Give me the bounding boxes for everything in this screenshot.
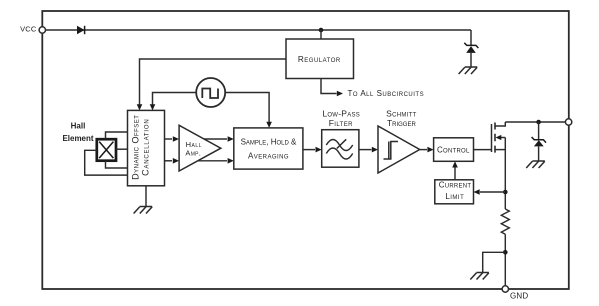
chip outline border bbox=[42, 11, 569, 289]
svg-text:Control: Control bbox=[437, 145, 470, 154]
wire source rail to current limit bbox=[474, 189, 506, 195]
wire hall top terminal bbox=[106, 132, 128, 139]
Hall element bbox=[97, 139, 116, 161]
ground below Z1 bbox=[459, 67, 478, 74]
wire hall right terminal bbox=[116, 148, 128, 150]
ground at bottom branch bbox=[470, 273, 489, 280]
svg-text:Cancellation: Cancellation bbox=[141, 119, 151, 176]
svg-text:Amp.: Amp. bbox=[185, 149, 201, 158]
low-pass filter box bbox=[322, 130, 359, 168]
wire low-pass filter to schmitt bbox=[359, 147, 378, 153]
wire control to gate bbox=[474, 149, 492, 151]
junction resistor leg to ground branch bbox=[503, 250, 508, 255]
resistor R1 bbox=[501, 209, 509, 234]
wire hall left loop terminal bbox=[85, 150, 128, 175]
wire to all subcircuits bbox=[321, 79, 424, 98]
node VCC pin bbox=[20, 25, 45, 34]
wire hall amp to sample bottom bbox=[198, 158, 234, 164]
svg-text:GND: GND bbox=[510, 292, 528, 301]
schmitt trigger label bbox=[386, 108, 416, 128]
schmitt trigger bbox=[378, 126, 420, 173]
op-amp hall amp bbox=[179, 125, 221, 171]
ground below DOC bbox=[134, 207, 153, 214]
wire current limit to control bbox=[452, 161, 458, 180]
diode D1 on VCC rail bbox=[77, 26, 85, 34]
ground below Z2 bbox=[526, 161, 545, 168]
svg-text:Schmitt: Schmitt bbox=[386, 108, 416, 118]
junction source rail to current limit bbox=[503, 190, 508, 195]
svg-text:Regulator: Regulator bbox=[298, 55, 341, 64]
svg-text:VCC: VCC bbox=[20, 25, 37, 34]
svg-text:Hall: Hall bbox=[71, 122, 86, 131]
svg-text:Dynamic Offset: Dynamic Offset bbox=[130, 115, 140, 180]
wire DOC to hall amp bottom bbox=[165, 158, 180, 164]
regulator box bbox=[286, 39, 354, 79]
svg-text:Current: Current bbox=[439, 181, 472, 190]
oscillator U2 bbox=[196, 78, 225, 107]
dynamic offset cancellation box bbox=[128, 110, 165, 185]
wire regulator to dynamic offset cancellation bbox=[137, 59, 286, 110]
wire oscillator to DOC bbox=[150, 93, 197, 111]
wire sample to low-pass filter bbox=[303, 147, 322, 153]
wire source rail down bbox=[504, 138, 506, 210]
sample hold averaging box bbox=[234, 128, 303, 169]
node GND pin bbox=[502, 286, 528, 301]
zener Z2 bbox=[532, 137, 546, 161]
wire hall bottom terminal bbox=[106, 161, 128, 168]
Hall element label bbox=[62, 122, 93, 144]
low-pass filter label bbox=[322, 108, 360, 128]
junction on VCC rail above regulator bbox=[319, 28, 324, 33]
svg-text:Trigger: Trigger bbox=[387, 118, 417, 128]
wire DOC ground lead bbox=[145, 186, 147, 207]
zener Z1 bbox=[464, 43, 478, 53]
wire hall amp to sample top bbox=[204, 136, 234, 142]
control box bbox=[434, 138, 474, 162]
wire to zener Z2 bbox=[538, 122, 540, 140]
svg-text:To All Subcircuits: To All Subcircuits bbox=[348, 89, 425, 98]
junction drain rail to Z2 bbox=[536, 120, 541, 125]
svg-text:Averaging: Averaging bbox=[248, 151, 289, 160]
wire schmitt to control bbox=[420, 147, 434, 153]
wire VCC rail bbox=[46, 29, 471, 31]
wire branch to ground bbox=[483, 252, 506, 272]
svg-text:Sample, Hold &: Sample, Hold & bbox=[241, 137, 297, 146]
wire oscillator to sample hold bbox=[225, 93, 272, 128]
node OUTPUT pin bbox=[565, 119, 571, 125]
svg-text:Filter: Filter bbox=[329, 118, 353, 128]
wire drain to output node bbox=[505, 121, 565, 123]
wire resistor to GND pin bbox=[504, 234, 506, 286]
svg-text:Limit: Limit bbox=[445, 192, 464, 201]
current limit box bbox=[435, 180, 474, 204]
wire VCC rail to zener Z1 bbox=[470, 30, 472, 67]
wire DOC to hall amp top bbox=[165, 136, 180, 142]
svg-text:Low-Pass: Low-Pass bbox=[322, 108, 360, 118]
svg-text:Element: Element bbox=[62, 134, 93, 143]
wire VCC to regulator bbox=[320, 30, 322, 39]
transistor Q1 output MOSFET bbox=[492, 122, 506, 153]
